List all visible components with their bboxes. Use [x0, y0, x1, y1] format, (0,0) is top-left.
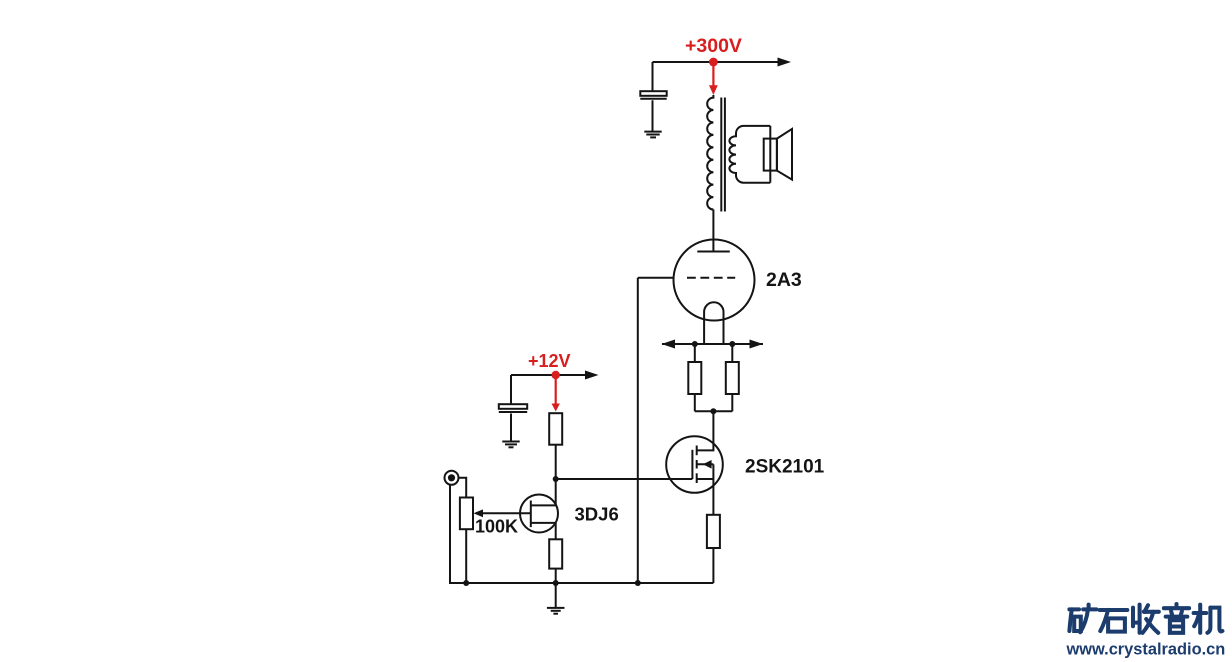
arrow: filament supply left [662, 340, 676, 349]
wire: +12V rail [511, 374, 586, 376]
input jack J1 [445, 471, 459, 485]
wire: ground rail [450, 484, 713, 583]
wire: jack tip to potentiometer [459, 478, 467, 498]
node: +12V tap (red dot) [552, 371, 560, 379]
arrow: +12V rail right [585, 371, 599, 380]
transformer T1 primary winding [707, 95, 713, 210]
wire: R4 to ground rail [712, 548, 714, 583]
wire: right junction to R2 [731, 344, 733, 362]
ground (C1) [644, 131, 661, 133]
potentiometer RP1 100K body [460, 498, 473, 530]
wire: C2 to ground [510, 414, 512, 442]
svg-text:+300V: +300V [685, 35, 742, 57]
ground (C2) [502, 441, 519, 443]
node: +300V tap (red dot) [709, 58, 718, 67]
wire: cathode join [695, 410, 733, 412]
svg-text:www.crystalradio.cn: www.crystalradio.cn [1066, 640, 1226, 658]
arrow: +12V feed into R3 (red) [555, 375, 557, 404]
capacitor C1 [640, 91, 666, 96]
node: heater right junction [729, 341, 735, 347]
wire: C1 to ground [652, 100, 654, 131]
svg-text:3DJ6: 3DJ6 [575, 503, 619, 524]
ground (main) [547, 607, 565, 609]
svg-text:2A3: 2A3 [766, 269, 802, 291]
wire: grid down to ground rail [637, 278, 639, 583]
watermark: crystalradio logo character kuang [1069, 605, 1096, 633]
watermark: crystalradio logo character shi [1100, 610, 1128, 632]
Q1 source lead [697, 478, 714, 480]
wire: primary to 2A3 plate [712, 210, 714, 252]
watermark: crystalradio logo character yin [1164, 604, 1189, 633]
3DJ6 cathode lead [531, 522, 556, 524]
Q1 channel segments [696, 446, 698, 456]
node: cathode junction [710, 408, 716, 414]
node: R5-rail junction [553, 580, 559, 586]
wire: rail to C1 [652, 62, 654, 91]
resistor R1 [688, 362, 701, 394]
wire: left junction to R1 [694, 344, 696, 362]
transformer T1 secondary winding [729, 126, 770, 183]
wire: +300V rail [653, 61, 780, 63]
resistor R4 [707, 515, 720, 548]
resistor R5 [549, 539, 562, 568]
transformer T1 core [720, 98, 722, 212]
capacitor C2 [499, 404, 527, 409]
3DJ6 grid bar [530, 501, 532, 528]
wire: wiper to 3DJ6 grid [481, 512, 531, 514]
node: grid-ground junction [635, 580, 641, 586]
svg-text:+12V: +12V [528, 351, 571, 371]
node: 3DJ6 drain node [553, 476, 559, 482]
wire: drain node to Q1 gate [556, 478, 693, 480]
transistor Q1 2SK2101 envelope [666, 436, 723, 493]
wire: R1 bottom [694, 394, 696, 411]
wire: cathode to Q1 drain [697, 411, 714, 450]
arrow: +300V rail right [778, 58, 792, 67]
wire: rail to main ground [555, 583, 557, 608]
arrow: filament supply right [750, 340, 764, 349]
speaker LS1 [764, 139, 777, 171]
wire: secondary loop right side [769, 126, 771, 183]
wire: 3DJ6 cathode to R5 [555, 523, 557, 539]
2A3 plate bar [697, 251, 730, 253]
wire: Q1 source down to R4 [712, 464, 714, 515]
wire: rail to C2 [510, 375, 512, 404]
2A3 grid (dashed) [687, 277, 735, 279]
node: pot-rail junction [463, 580, 469, 586]
wire: pot bottom to ground rail [465, 529, 467, 583]
wire: filament heater rail [662, 343, 763, 345]
svg-text:100K: 100K [475, 517, 518, 537]
arrow: B+ feed into transformer primary (red) [712, 62, 714, 86]
wire: node down to 3DJ6 plate [555, 479, 557, 505]
resistor R2 [726, 362, 739, 394]
watermark: crystalradio logo character shou [1133, 605, 1159, 633]
svg-text:2SK2101: 2SK2101 [745, 457, 825, 478]
wire: R2 bottom [731, 394, 733, 411]
resistor R3 [549, 413, 562, 445]
tube V2 3DJ6 envelope [520, 495, 558, 533]
tube V1 2A3 envelope [674, 240, 755, 321]
wire: R5 to ground rail [555, 569, 557, 583]
watermark: crystalradio logo character ji [1194, 605, 1223, 633]
arrow: pot wiper [474, 509, 484, 517]
2A3 filament [704, 302, 723, 344]
Q1 body lead with arrow [697, 463, 714, 465]
node: heater left junction [692, 341, 698, 347]
wire: R3 to drain node [555, 445, 557, 479]
wire: grid lead [638, 277, 674, 279]
3DJ6 plate lead [531, 504, 556, 506]
Q1 gate bar [691, 450, 693, 479]
